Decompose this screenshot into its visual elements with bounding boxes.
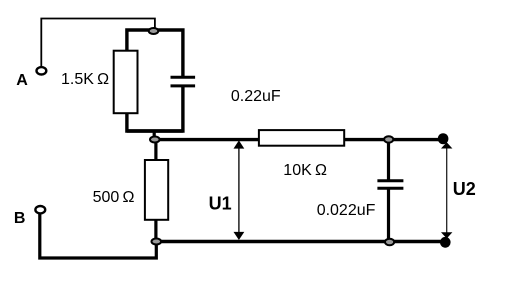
U1 measurement arrow: [234, 140, 245, 240]
wire from terminal A to top node: [41, 19, 155, 67]
node D2 (black terminal dot, bottom right): [440, 237, 451, 248]
wire top rail right segment (R3 to terminal dot D1): [344, 138, 448, 141]
node D1 (black terminal dot, top right): [438, 133, 449, 144]
terminal B: [35, 206, 45, 213]
resistor R3 10K ohm: [259, 130, 344, 146]
terminal A: [37, 67, 47, 74]
svg-text:U2: U2: [453, 179, 476, 199]
wire R2 to node J4: [154, 220, 157, 242]
svg-text:B: B: [14, 210, 26, 227]
node J2 (gray junction at main node): [150, 137, 160, 143]
svg-text:500 Ω: 500 Ω: [93, 189, 135, 206]
wire bottom rail (J4 to terminal dot D2): [156, 240, 448, 243]
svg-text:0.022uF: 0.022uF: [317, 202, 376, 219]
wire from bottom bar to node J2: [153, 130, 156, 140]
capacitor C2 0.022uF plates: [377, 181, 403, 189]
capacitor C1 0.22uF plates: [171, 77, 196, 86]
U2 measurement arrow: [441, 142, 452, 238]
svg-text:10K Ω: 10K Ω: [283, 162, 327, 179]
wire top rail left segment (node J2 to R3): [155, 138, 259, 141]
svg-text:0.22uF: 0.22uF: [231, 88, 281, 105]
node J3 (gray junction, top of C2): [384, 136, 393, 142]
svg-text:U1: U1: [209, 193, 232, 213]
capacitor C2 0.022uF vertical wires: [387, 140, 390, 242]
resistor R1 1.5K ohm: [114, 51, 138, 113]
wire J2 to resistor R2: [154, 140, 157, 161]
resistor R2 500 ohm: [145, 160, 168, 220]
svg-text:A: A: [16, 72, 28, 89]
svg-text:1.5K Ω: 1.5K Ω: [61, 71, 109, 88]
node J1 (top junction, gray): [149, 28, 159, 34]
wire from terminal B to bottom node: [40, 214, 157, 258]
node J4 (gray junction, bottom of R2): [152, 239, 162, 245]
node J5 (gray junction, bottom of C2): [385, 239, 394, 245]
wire parallel-block outline (top bar + branch verticals + bottom bar): [127, 30, 183, 131]
